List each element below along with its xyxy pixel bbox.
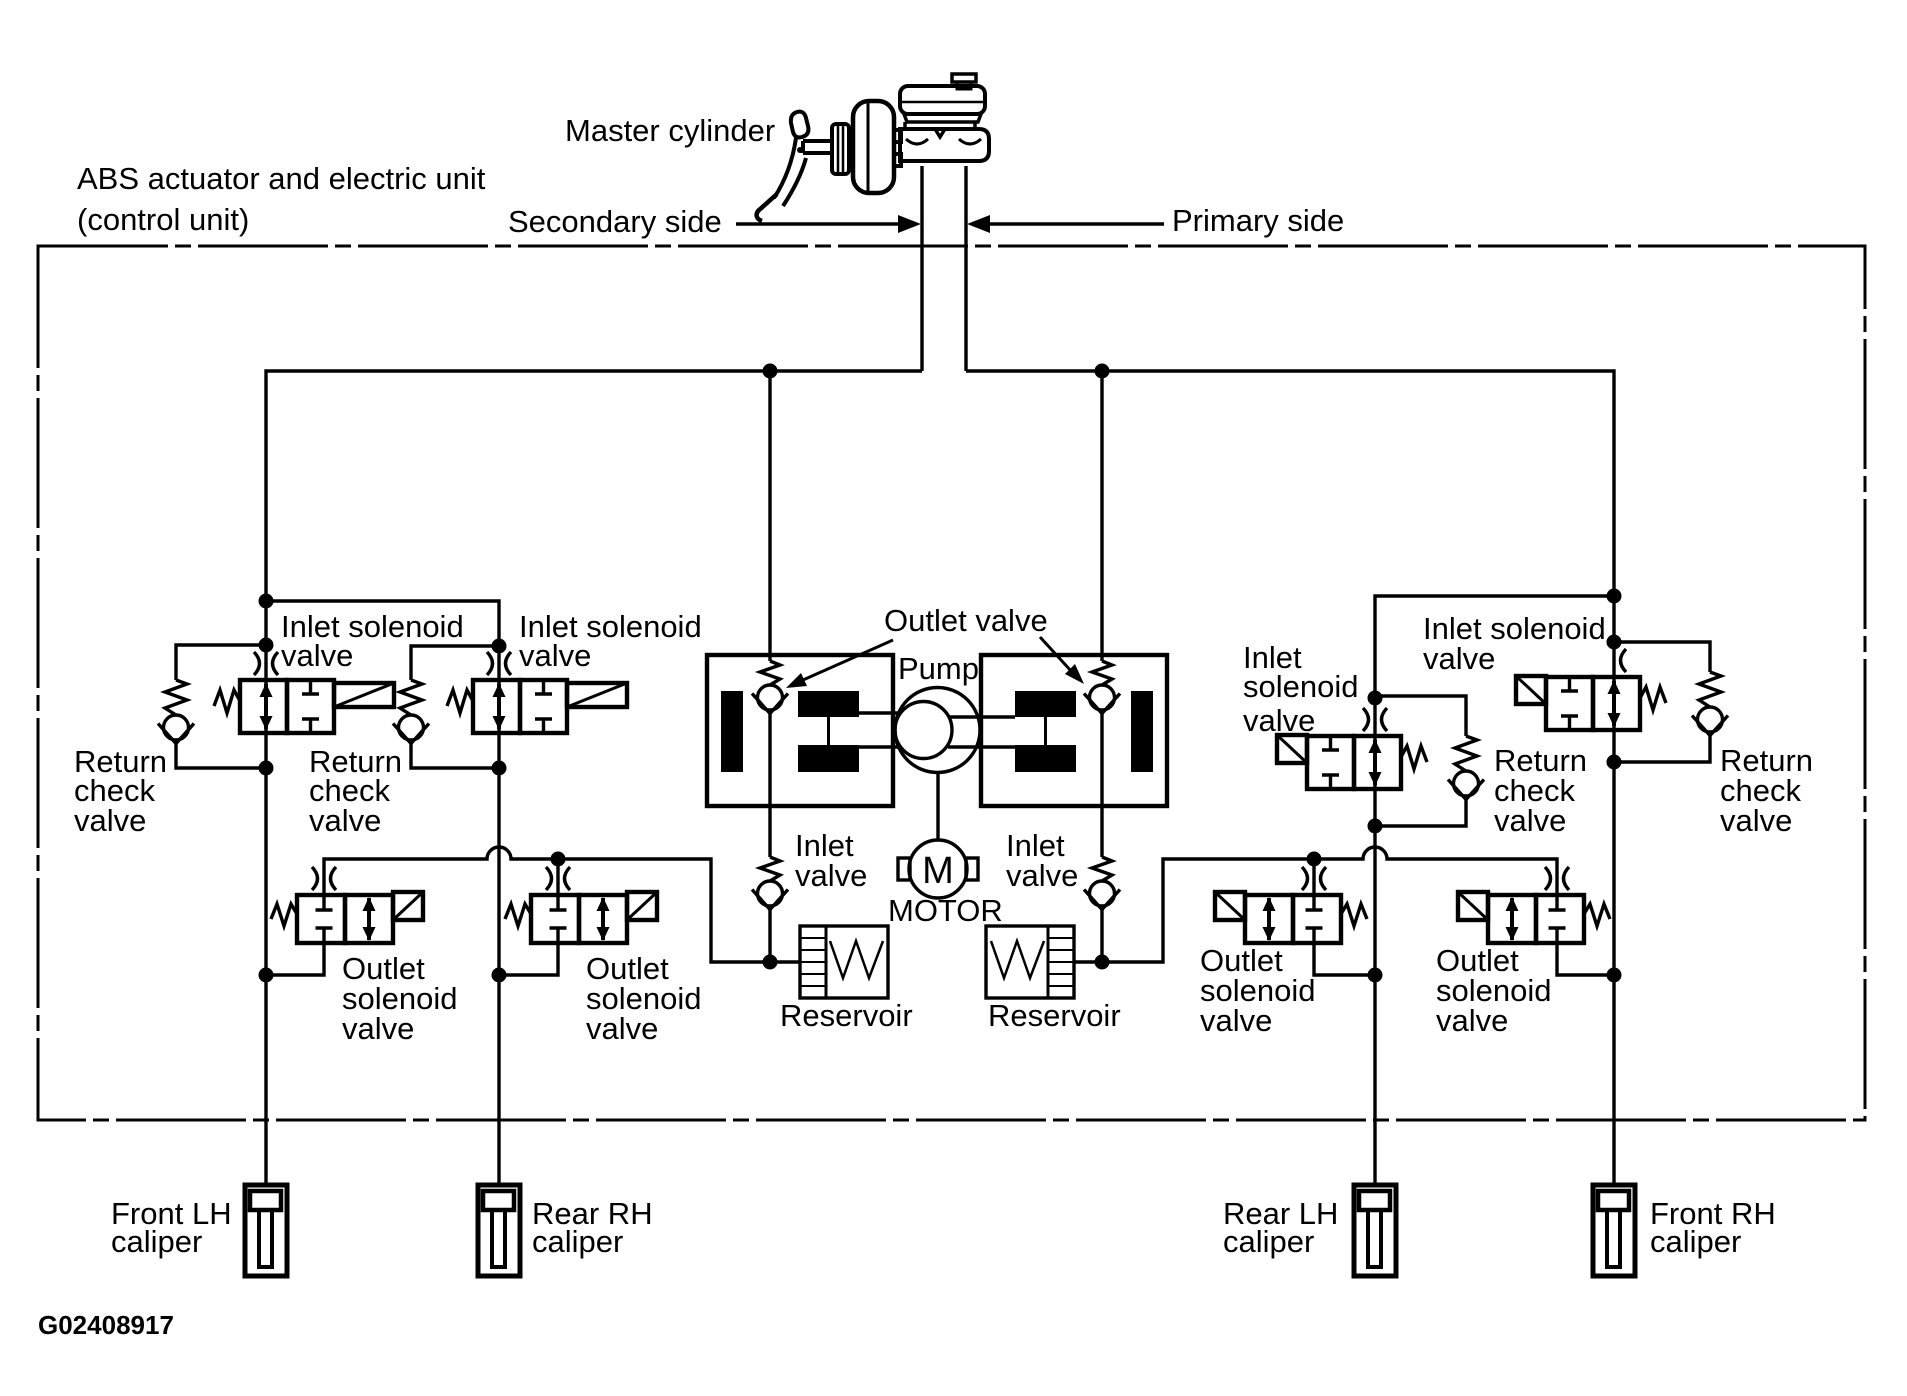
inlet valve (pump, left) [752,857,788,910]
wire: master cylinder secondary port down [920,166,923,371]
inlet solenoid valve V4 (Front RH) [1516,676,1666,730]
outlet valve V7 output wire [1314,943,1375,975]
return check valve RC2 [393,680,429,744]
return check valve RC3 [1448,736,1484,800]
orifice at V7 [1302,867,1326,890]
outlet valve (pump, left) [752,661,788,714]
outlet valve pointer arrow right [1040,637,1084,684]
master cylinder illustration [757,74,989,221]
wire: primary top bus + Front RH channel vertical [966,371,1614,1185]
ABS control unit dash-dot enclosure box [38,246,1865,1120]
primary side arrow [967,215,1164,233]
outlet solenoid valve V6 (Rear RH) [505,892,657,943]
outlet valve V5 output wire [266,943,324,975]
orifice at V1 [254,652,278,675]
svg-text:valve: valve [309,803,381,838]
pump channel lines [859,713,1015,747]
outlet solenoid valve V5 (Front LH) [271,892,423,943]
svg-text:valve: valve [586,1011,658,1046]
inlet solenoid valve V1 (Front LH) [214,680,394,733]
svg-text:valve: valve [74,803,146,838]
svg-text:Reservoir: Reservoir [988,998,1121,1033]
caliper Rear LH [1354,1185,1396,1276]
svg-text:valve: valve [1423,641,1495,676]
orifice at V3 [1363,708,1387,731]
svg-text:caliper: caliper [1223,1224,1314,1259]
svg-text:valve: valve [1243,703,1315,738]
motor [909,840,967,898]
outlet bus right [1074,847,1557,962]
orifice at V5 [312,867,336,890]
return check valve RC1 wires [176,645,266,768]
motor shaft [936,773,939,840]
caliper Front LH [245,1185,287,1276]
mounting plate [832,124,849,174]
pump block left [707,655,893,806]
reservoir right [986,926,1074,998]
wire: left pump feed [768,371,771,962]
caliper Front RH [1593,1185,1635,1276]
pedal pivot [797,147,803,153]
outlet valve pointer arrow left [786,640,893,688]
svg-text:Outlet valve: Outlet valve [884,603,1048,638]
wire: branch to Rear RH channel [266,601,499,1185]
svg-text:valve: valve [1006,858,1078,893]
orifice at V2 [487,652,511,675]
brake pedal knob [791,112,809,138]
outlet valve V8 output wire [1557,943,1614,975]
return check valve RC1 [158,680,194,744]
orifice at V8 [1545,867,1569,890]
svg-text:MOTOR: MOTOR [888,893,1003,928]
outlet solenoid valve V7 (Rear LH) [1215,892,1367,943]
svg-text:valve: valve [1494,803,1566,838]
cylinder body [900,129,989,161]
inlet valve (pump, right) [1084,857,1120,910]
svg-text:valve: valve [281,638,353,673]
pump eccentric circles [895,688,980,773]
svg-text:valve: valve [1200,1003,1272,1038]
right piston rects [1015,691,1076,717]
svg-text:caliper: caliper [532,1224,623,1259]
wire: master cylinder primary port down [964,166,967,371]
svg-text:Pump: Pump [898,651,979,686]
svg-text:valve: valve [1436,1003,1508,1038]
right block bar [1131,691,1153,772]
svg-text:caliper: caliper [1650,1224,1741,1259]
inlet solenoid valve V2 (Rear RH) [447,680,627,733]
wire: branch to Rear LH channel [1375,596,1614,1185]
pump block right [981,655,1167,806]
wire: right pump feed [1100,371,1103,962]
return check valve RC4 wires [1614,642,1710,762]
svg-text:caliper: caliper [111,1224,202,1259]
return check valve RC2 wires [411,646,499,768]
svg-text:valve: valve [795,858,867,893]
svg-text:Primary side: Primary side [1172,203,1344,238]
svg-text:Master cylinder: Master cylinder [565,113,775,148]
svg-text:Reservoir: Reservoir [780,998,913,1033]
svg-text:G02408917: G02408917 [38,1310,174,1340]
svg-text:Secondary side: Secondary side [508,204,722,239]
left piston rects [798,691,859,717]
pedal arm [774,138,796,198]
outlet valve V6 output wire [499,943,558,975]
secondary side arrow [736,215,921,233]
pedal pad [757,194,777,221]
caliper Rear RH [478,1185,520,1276]
svg-text:valve: valve [519,638,591,673]
outlet valve (pump, right) [1084,661,1120,714]
return check valve RC4 [1692,672,1728,736]
left block bar [721,691,743,772]
booster-cylinder connector [893,130,901,166]
svg-text:(control unit): (control unit) [77,202,249,237]
return check valve RC3 wires [1375,696,1466,826]
orifice at V4 [1621,649,1627,672]
wire: secondary top bus + Front LH channel vertical [266,371,922,1185]
push rod [803,141,833,153]
fluid reservoir [900,86,985,114]
svg-text:M: M [922,850,954,892]
reservoir left [800,926,888,998]
filler cap [952,74,976,82]
outlet solenoid valve V8 (Front RH) [1458,892,1610,943]
booster [853,101,894,193]
orifice at V6 [546,867,570,890]
svg-text:solenoid: solenoid [1243,669,1358,704]
inlet solenoid valve V3 (Rear LH) [1277,735,1427,789]
svg-text:valve: valve [1720,803,1792,838]
svg-text:ABS actuator and electric unit: ABS actuator and electric unit [77,161,486,196]
svg-text:valve: valve [342,1011,414,1046]
outlet bus left [324,847,800,962]
